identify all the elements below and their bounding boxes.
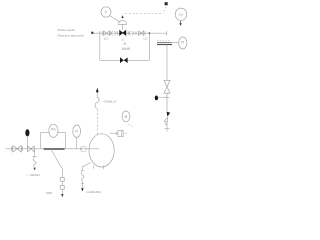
blind blob (filled)	[25, 129, 29, 136]
bypass line	[100, 59, 150, 61]
flange tick g	[144, 31, 146, 35]
spool arcs 1	[112, 31, 116, 36]
svg-text:GA06L10: GA06L10	[104, 99, 117, 103]
vessel bottom outlet	[82, 163, 90, 171]
vessel T-1	[89, 134, 114, 167]
pigtail siphon 2	[81, 171, 84, 183]
tick on right column	[165, 96, 170, 98]
vessel foot tick right	[102, 166, 104, 170]
svg-text:MAIN: MAIN	[122, 47, 131, 51]
flange tick d	[116, 31, 118, 35]
valve V3	[13, 145, 22, 152]
valve V1	[104, 31, 110, 36]
svg-text:∟ DRAIN: ∟ DRAIN	[26, 173, 40, 177]
pipe P1 end tick	[166, 31, 168, 35]
break symbol line 2	[157, 44, 172, 46]
svg-text:PI: PI	[75, 129, 78, 133]
bridle top	[41, 131, 66, 133]
bypass riser left	[99, 33, 101, 60]
control valve actuator dome	[118, 20, 126, 29]
leader square	[91, 32, 93, 34]
signal dot node	[122, 16, 124, 18]
valve V5 (filled) on bypass	[120, 57, 128, 63]
control valve CV1 body (filled)	[119, 30, 126, 36]
leader line from PI-1 to actuator	[110, 16, 121, 23]
flange tick e	[127, 31, 129, 35]
svg-text:10: 10	[121, 38, 124, 42]
off-page connector square	[165, 2, 168, 5]
instrument bubble M	[122, 111, 130, 122]
svg-text:LO: LO	[104, 36, 109, 40]
vent pigtail	[95, 92, 99, 109]
sample box 2	[60, 185, 64, 189]
dip pipe inside vessel	[89, 148, 99, 150]
drain branch 2 diagonal	[51, 149, 62, 177]
break symbol line 1	[157, 41, 172, 43]
vent dashed line	[96, 109, 98, 135]
svg-text:Reaction approved: Reaction approved	[58, 34, 84, 38]
arrow below DG	[180, 21, 182, 24]
angle valve filled triangle	[167, 112, 171, 117]
flange tick f	[135, 31, 137, 35]
valve V2	[139, 31, 144, 36]
drain arrow 1	[34, 168, 36, 171]
flange tick i	[22, 147, 24, 151]
jacketed pipe thick segment	[44, 148, 65, 150]
svg-text:PI: PI	[181, 40, 184, 44]
valve V4	[28, 146, 35, 152]
junction node on P1	[149, 32, 151, 34]
instrument bubble PI-1	[101, 7, 111, 17]
valve V6 vertical hourglass	[164, 80, 170, 93]
tiny mark above MAIN	[124, 42, 126, 44]
svg-text:LO: LO	[144, 37, 149, 41]
pipe P1 main feed line	[100, 32, 167, 34]
vessel foot tick left	[93, 165, 95, 169]
right column lower pipe	[166, 122, 168, 132]
inline box S1	[118, 130, 123, 136]
drain branch 1	[34, 149, 36, 157]
svg-text:M: M	[125, 115, 128, 119]
drain arrow 2	[61, 189, 63, 194]
connector to PI-3	[172, 42, 179, 44]
spool arcs 2	[130, 31, 134, 36]
sample box 1	[60, 177, 64, 181]
bypass riser right	[148, 33, 150, 60]
vessel top-right nozzle line	[110, 132, 117, 134]
pigtail siphon 1	[33, 158, 36, 167]
end tick	[164, 128, 169, 130]
break symbol dashed line	[157, 39, 170, 41]
right column pipe	[166, 45, 168, 81]
pipe P2 suction line	[6, 148, 100, 150]
instrument bubble PI-3	[179, 37, 187, 49]
svg-text:PI: PI	[105, 10, 108, 14]
drain blob at right column	[155, 96, 158, 101]
instrument bubble PI-2	[73, 125, 81, 149]
signal dashed line to off-page	[125, 12, 164, 14]
svg-text:PG: PG	[51, 127, 56, 131]
blind stem	[26, 136, 28, 148]
instrument bubble DG	[175, 8, 186, 20]
flange tick h	[11, 147, 13, 151]
bridle leg right	[65, 132, 67, 148]
svg-text:DG: DG	[179, 13, 184, 17]
svg-text:Molten liquid: Molten liquid	[58, 28, 76, 32]
vent arrow up	[96, 88, 99, 92]
bridle leg left	[40, 132, 42, 148]
flange tick b	[102, 31, 104, 35]
faint leader dots	[128, 124, 133, 127]
flange tick a	[99, 31, 101, 35]
flange tick c	[110, 31, 112, 35]
svg-text:GA06L06A: GA06L06A	[86, 190, 101, 194]
angle valve open triangle	[164, 117, 168, 121]
bottom arrow	[81, 188, 83, 191]
instrument bubble PG	[49, 124, 58, 137]
svg-text:DRN: DRN	[46, 191, 52, 195]
inline circle item	[81, 146, 87, 152]
